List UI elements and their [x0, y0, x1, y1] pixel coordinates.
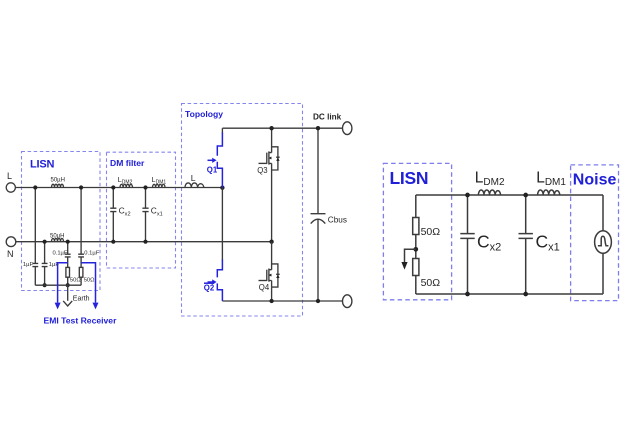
svg-text:Cbus: Cbus [328, 216, 347, 225]
svg-text:Q3: Q3 [257, 166, 267, 175]
transistor Q1 (blue) [207, 128, 223, 188]
DM filter dashed box [107, 152, 176, 268]
LISN dashed box (equivalent circuit) [383, 163, 451, 299]
wire ground stub [405, 249, 416, 262]
capacitor Cx2 (equivalent) [460, 234, 474, 239]
svg-text:50Ω: 50Ω [421, 226, 441, 238]
svg-text:50Ω: 50Ω [70, 278, 81, 284]
svg-text:50µH: 50µH [51, 178, 65, 184]
inductor LDM2 (DM filter) [120, 184, 132, 187]
node bus / 1uF [43, 283, 47, 287]
node between resistors [413, 247, 418, 252]
wire 50ohm branch [415, 195, 417, 294]
svg-text:50Ω: 50Ω [421, 277, 441, 289]
node Cx2 bottom [465, 292, 470, 297]
inductor L (boost) [185, 183, 204, 188]
wire 1uF branch from N line [44, 242, 46, 286]
wire noise source branch [602, 195, 604, 294]
transistor Q2 (blue) [204, 188, 223, 301]
wire Cx2 branch [112, 188, 114, 242]
svg-text:LISN: LISN [390, 168, 429, 188]
arrow EMI left [55, 303, 61, 310]
resistor 50ohm (right) [79, 267, 83, 277]
capacitor 0.1uF (left) [65, 254, 71, 257]
svg-text:Earth: Earth [73, 296, 90, 303]
terminal L [6, 183, 15, 192]
transistor Q4 (MOSFET) [259, 242, 280, 301]
svg-text:Q1: Q1 [207, 166, 218, 175]
node Cx2 bottom [111, 240, 115, 244]
node Cx2 top [465, 193, 470, 198]
Noise dashed box [571, 165, 619, 301]
resistor 50ohm upper [413, 218, 419, 235]
node Cx1 bottom [143, 240, 147, 244]
wire top (equivalent circuit) [416, 194, 603, 196]
svg-text:L: L [7, 171, 12, 181]
svg-text:LISN: LISN [30, 159, 55, 171]
inductor 50uH (N line) [52, 238, 64, 241]
wire L line [15, 187, 222, 189]
node N line / branch [66, 240, 70, 244]
wire Cx2 branch (equivalent) [467, 195, 469, 294]
node Cx1 bottom [523, 292, 528, 297]
svg-text:N: N [7, 249, 14, 259]
capacitor 1uF (L side) [32, 263, 38, 266]
node Cbus bottom [316, 299, 320, 303]
svg-text:50Ω: 50Ω [84, 278, 95, 284]
node Cx2 top [111, 185, 115, 189]
wire LISN ground bus [35, 284, 81, 286]
inductor LDM1 (DM filter) [153, 184, 165, 187]
svg-text:0.1µF: 0.1µF [53, 251, 68, 257]
svg-text:1µF: 1µF [23, 262, 34, 268]
resistor 50ohm (left) [66, 267, 70, 277]
node bottom rail / Q4 leg [269, 299, 273, 303]
ground earth symbol [63, 301, 72, 306]
node Cx1 top [523, 193, 528, 198]
wire Cbus branch [317, 128, 319, 301]
terminal N [6, 237, 16, 247]
node L line / 1uF [33, 185, 37, 189]
node L line / branch [79, 185, 83, 189]
inductor 50uH (L line) [52, 184, 64, 187]
transistor Q3 (MOSFET) [257, 128, 280, 242]
arrow EMI right [93, 303, 99, 310]
wire bottom DC rail [222, 300, 342, 302]
capacitor Cx2 [110, 208, 116, 211]
svg-text:Noise: Noise [573, 172, 617, 189]
svg-text:L: L [191, 173, 196, 183]
node Cbus top [316, 126, 320, 130]
arrow ground [401, 262, 407, 270]
LISN dashed box [22, 152, 101, 291]
node bus / earth [66, 283, 70, 287]
wire 0.1uF+50ohm branch from N line [67, 242, 69, 286]
node Cx1 top [143, 185, 147, 189]
svg-text:50µH: 50µH [50, 233, 64, 239]
svg-text:0.1µF: 0.1µF [84, 251, 99, 257]
svg-text:DC link: DC link [313, 113, 342, 122]
inductor LDM1 (equivalent) [538, 190, 560, 195]
wire Cx1 branch (equivalent) [525, 195, 527, 294]
wire Cx1 branch [145, 188, 147, 242]
capacitor 1uF (N side) [42, 263, 48, 266]
capacitor Cx1 [142, 208, 148, 211]
svg-text:Topology: Topology [185, 109, 223, 119]
terminal DC+ [343, 122, 352, 135]
node L / bridge midpoint [220, 186, 224, 190]
capacitor Cbus [311, 213, 326, 215]
wire 0.1uF+50ohm branch from L line [80, 188, 82, 286]
inductor LDM2 (equivalent) [478, 190, 500, 195]
node top rail / Q3 leg [269, 126, 273, 130]
resistor 50ohm lower [413, 259, 419, 276]
wire EMI tap right (blue) [81, 263, 95, 303]
svg-text:DM filter: DM filter [110, 158, 145, 168]
node N line / 1uF [43, 240, 47, 244]
node N / bridge midpoint [269, 240, 273, 244]
svg-text:Q2: Q2 [204, 283, 215, 292]
wire 1uF branch from L line [34, 188, 36, 286]
wire earth drop [67, 285, 69, 301]
svg-text:Q4: Q4 [259, 283, 270, 292]
svg-text:EMI Test Receiver: EMI Test Receiver [44, 316, 118, 326]
wire bottom (equivalent circuit) [416, 293, 603, 295]
terminal DC- [343, 295, 352, 308]
source noise (pulse) [595, 231, 612, 254]
wire top DC rail [222, 127, 342, 129]
wire EMI tap left (blue) [58, 263, 68, 303]
Topology dashed box [182, 104, 303, 317]
capacitor 0.1uF (right) [78, 254, 84, 257]
capacitor Cx1 (equivalent) [519, 234, 533, 239]
wire N line [16, 241, 272, 243]
